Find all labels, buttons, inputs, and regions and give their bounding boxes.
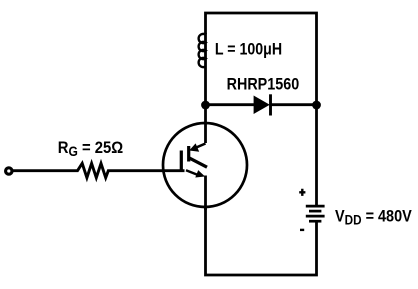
label VDD = 480V xyxy=(335,208,412,228)
label RG = 25ohm xyxy=(58,139,124,159)
wire top rail from inductor branch to right branch xyxy=(206,13,317,100)
svg-text:L = 100μH: L = 100μH xyxy=(215,40,282,58)
transistor Q1 channel bar xyxy=(187,146,190,162)
wire diode anode segment xyxy=(206,103,255,106)
wire inductor vertical through coil xyxy=(204,33,207,105)
wire right branch to battery xyxy=(315,100,318,205)
transistor Q1 gate bar xyxy=(180,151,183,171)
transistor Q1 circle envelope xyxy=(163,123,247,207)
node B junction dot right xyxy=(312,101,321,110)
label - minus terminal xyxy=(300,229,304,231)
label L = 100uH xyxy=(215,40,282,58)
svg-text:VDD = 480V: VDD = 480V xyxy=(335,208,412,228)
transistor Q1 collector diagonal with arrow xyxy=(192,144,206,150)
terminal input open circle xyxy=(6,168,12,174)
diode D1 RHRP1560 xyxy=(254,96,270,115)
battery V1 plates xyxy=(306,205,325,208)
transistor Q1 middle diagonal xyxy=(189,158,207,168)
svg-text:RG = 25Ω: RG = 25Ω xyxy=(58,139,124,159)
wire emitter lead out of circle xyxy=(204,176,207,211)
inductor L1 coil xyxy=(199,34,206,67)
wire gate lead with resistor RG xyxy=(12,163,185,177)
svg-text:RHRP1560: RHRP1560 xyxy=(227,76,300,94)
wire diode cathode segment xyxy=(270,103,317,106)
transistor Q1 emitter diagonal with arrow xyxy=(186,170,198,175)
node A junction dot left xyxy=(201,101,210,110)
wire collector lead into circle xyxy=(204,105,207,143)
label RHRP1560 xyxy=(227,76,300,94)
wire battery to bottom rail and bottom rail to emitter xyxy=(206,207,317,275)
label + plus terminal xyxy=(299,189,305,196)
